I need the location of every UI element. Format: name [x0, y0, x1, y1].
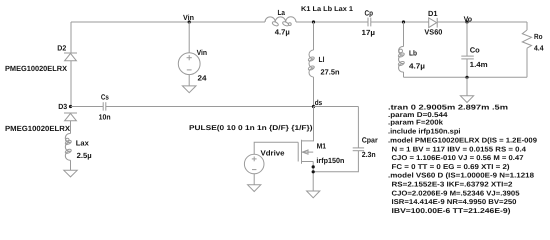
svg-text:CJO=2.0206E-9 M=.52346 VJ=.390: CJO=2.0206E-9 M=.52346 VJ=.3905 [392, 190, 520, 197]
svg-text:D3: D3 [58, 102, 67, 111]
wire Vdrive to ground [253, 174, 255, 185]
svg-text:Vin: Vin [197, 48, 208, 57]
svg-text:La: La [278, 8, 286, 17]
node rail-ground [465, 76, 468, 79]
svg-text:.model VS60 D (IS=1.0000E-9 N=: .model VS60 D (IS=1.0000E-9 N=1.1218 [388, 172, 534, 180]
phase dot Lax [66, 138, 70, 142]
wire to ground (output) [466, 77, 468, 96]
capacitor Cpar [353, 148, 364, 151]
voltage source Vdrive [244, 154, 264, 174]
inductor Ll [308, 50, 315, 77]
svg-text:Cpar: Cpar [362, 136, 378, 145]
svg-text:Lax: Lax [76, 139, 90, 148]
svg-text:IBV=100.00E-6 TT=21.246E-9): IBV=100.00E-6 TT=21.246E-9) [392, 207, 511, 215]
diode D1 [429, 18, 438, 28]
ground M1 source [307, 191, 320, 198]
svg-text:1.4m: 1.4m [470, 60, 488, 69]
resistor Ro [522, 30, 531, 48]
wire Lax to ground [70, 160, 72, 170]
svg-text:ds: ds [315, 98, 323, 107]
svg-text:VS60: VS60 [424, 28, 442, 37]
inductor La [265, 17, 296, 27]
ground output [460, 96, 473, 103]
wire top-left vertical [70, 22, 72, 53]
ground Vdrive [248, 185, 261, 192]
ground Lax [64, 170, 77, 177]
svg-text:N = 1 BV = 117 IBV = 0.0155 RS: N = 1 BV = 117 IBV = 0.0155 RS = 0.4 [392, 146, 527, 153]
node source a [312, 165, 315, 168]
svg-text:K1 La Lb Lax 1: K1 La Lb Lax 1 [301, 5, 353, 13]
svg-text:Vin: Vin [183, 13, 194, 22]
wire Vo to Co [466, 22, 468, 56]
svg-text:irfp150n: irfp150n [316, 156, 344, 165]
transistor M1 [298, 140, 313, 164]
phase dot Lb [399, 49, 403, 53]
svg-text:FC = 0 TT = 0 EG = 0.69 XTI =: FC = 0 TT = 0 EG = 0.69 XTI = 2) [392, 163, 510, 171]
svg-text:Vo: Vo [464, 15, 473, 24]
svg-text:27.5n: 27.5n [321, 68, 340, 77]
svg-text:4.7µ: 4.7µ [409, 62, 425, 71]
wire top rail left [71, 21, 265, 23]
svg-text:PMEG10020ELRX: PMEG10020ELRX [5, 64, 67, 73]
svg-text:.include irfp150n.spi: .include irfp150n.spi [388, 127, 461, 135]
wire mid rail [71, 106, 104, 108]
svg-text:.param D=0.544: .param D=0.544 [388, 112, 448, 119]
node Vin [188, 20, 191, 23]
node source b [312, 170, 315, 173]
svg-text:17µ: 17µ [362, 28, 376, 37]
wire source down [312, 162, 314, 192]
svg-text:Cs: Cs [101, 93, 109, 102]
inductor Lb [398, 46, 405, 72]
svg-text:.model PMEG10020ELRX D(IS = 1.: .model PMEG10020ELRX D(IS = 1.2E-009 [388, 136, 537, 144]
capacitor Co [461, 56, 474, 59]
wire top rail mid [296, 21, 368, 23]
wire mid rail right [106, 106, 314, 108]
wire bottom right rail [404, 76, 528, 78]
svg-text:4.7µ: 4.7µ [275, 27, 290, 36]
wire D1 to corner [437, 21, 527, 23]
wire Vin source to ground [188, 75, 190, 86]
svg-text:D1: D1 [428, 9, 438, 18]
svg-text:Co: Co [470, 46, 480, 55]
inductor Lax [65, 133, 72, 160]
svg-text:ISR=14.414E-9 NR=4.9950 BV=250: ISR=14.414E-9 NR=4.9950 BV=250 [392, 199, 517, 206]
wire top rail right [371, 21, 429, 23]
svg-text:Ll: Ll [319, 55, 325, 64]
wire Co to rail [466, 59, 468, 77]
svg-text:Cp: Cp [365, 9, 374, 18]
svg-text:RS=2.1552E-3 IKF=.63792 XTI=2: RS=2.1552E-3 IKF=.63792 XTI=2 [392, 181, 513, 188]
svg-text:24: 24 [198, 74, 208, 83]
wire drain [302, 107, 314, 141]
wire Lb top lead [403, 22, 405, 47]
diode D2 [64, 53, 77, 61]
svg-text:CJO = 1.106E-010 VJ = 0.56 M =: CJO = 1.106E-010 VJ = 0.56 M = 0.47 [392, 155, 524, 162]
voltage source Vin [178, 53, 200, 75]
capacitor Cp [368, 18, 371, 27]
svg-text:.param F=200k: .param F=200k [388, 119, 443, 127]
svg-text:4.4: 4.4 [534, 44, 544, 53]
node Vo [465, 20, 468, 23]
svg-text:Vdrive: Vdrive [261, 149, 285, 158]
svg-text:PMEG10020ELRX: PMEG10020ELRX [5, 124, 70, 133]
node Ll top [312, 20, 315, 23]
svg-text:M1: M1 [317, 142, 327, 151]
wire Ro top lead [526, 22, 528, 30]
svg-text:Ro: Ro [534, 32, 543, 41]
wire Cpar top lead [357, 107, 359, 148]
wire Vin node to source [188, 22, 190, 53]
wire gate [254, 142, 298, 154]
svg-text:2.3n: 2.3n [362, 150, 376, 159]
diode D3 [64, 113, 77, 134]
wire D2 anode to D3 node [70, 61, 72, 107]
wire Ll to ds [313, 77, 315, 107]
svg-text:.tran 0 2.9005m 2.897m .5m: .tran 0 2.9005m 2.897m .5m [388, 105, 508, 112]
svg-text:10n: 10n [99, 113, 111, 122]
phase dot La [288, 23, 291, 26]
svg-text:Lb: Lb [409, 49, 417, 58]
node ds [312, 105, 315, 108]
wire Cpar bottom lead [313, 151, 358, 172]
capacitor Cs [103, 102, 106, 110]
svg-text:D2: D2 [57, 43, 66, 52]
svg-text:PULSE(0 10 0 1n 1n {D/F} {1/F}: PULSE(0 10 0 1n 1n {D/F} {1/F}) [189, 124, 313, 132]
wire Ro bottom lead [526, 48, 528, 77]
node Lb top [402, 20, 405, 23]
node D3 [69, 105, 72, 108]
ground Vin [182, 86, 196, 93]
wire Lb to bottom rail [403, 72, 405, 77]
svg-text:2.5µ: 2.5µ [77, 151, 92, 160]
wire Ll top lead [313, 22, 315, 50]
wire ds to Cpar [314, 106, 359, 108]
